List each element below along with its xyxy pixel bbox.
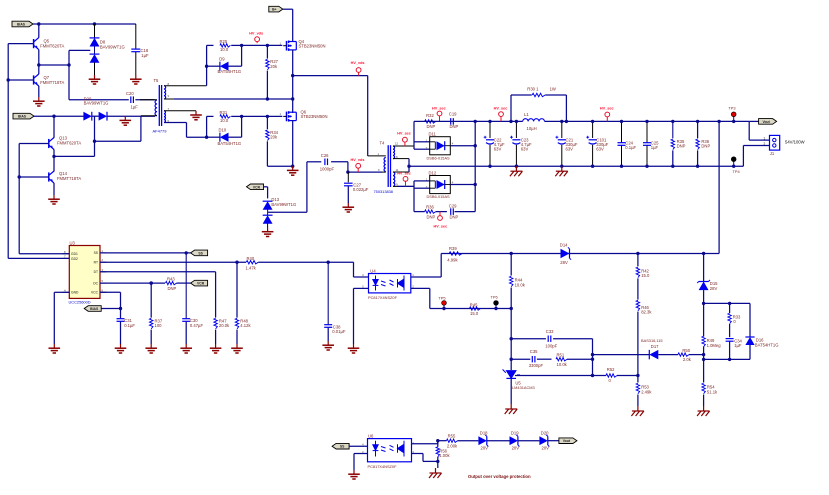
wire GD1 pin [19, 253, 69, 255]
svg-text:1W: 1W [550, 87, 556, 92]
junction GD1/Q14 base [18, 175, 21, 178]
wire feedback sense line [441, 253, 719, 255]
power flag HV_sec (rect top) [437, 111, 442, 121]
svg-text:28V: 28V [710, 286, 718, 291]
net tag SS (U3) [191, 250, 208, 256]
svg-text:R31: R31 [220, 110, 228, 115]
resistor R56 [437, 441, 439, 447]
ground (C31) [115, 344, 127, 353]
wire output return [409, 165, 743, 167]
ground (R48) [231, 344, 243, 353]
svg-text:BIAS: BIAS [17, 23, 26, 27]
wire rectifier cathode bus [474, 121, 476, 211]
capacitor C25 [646, 121, 648, 142]
svg-text:DNP: DNP [701, 144, 710, 149]
resistor R49 [703, 303, 705, 336]
net tag BIAS (mid-left) [13, 113, 34, 119]
wire switch node to T4 [293, 75, 368, 77]
wire Q5 collector [38, 24, 40, 38]
wire R40 to opto [258, 261, 353, 263]
svg-text:10µH: 10µH [527, 126, 537, 131]
svg-text:Output over voltage protection: Output over voltage protection [468, 474, 531, 479]
svg-text:PC817X4NSZ0F: PC817X4NSZ0F [368, 295, 398, 300]
wire D19-D20 [518, 440, 540, 442]
junction [150, 281, 153, 284]
wire Q7 to ground [38, 86, 40, 97]
transistor Q13 [53, 116, 55, 138]
wire Q4 source / Q6 drain [292, 50, 294, 113]
svg-text:HV_sec: HV_sec [600, 107, 614, 111]
svg-text:0.022µF: 0.022µF [353, 187, 369, 192]
svg-text:R30 1: R30 1 [527, 87, 539, 92]
wire midpoint to D8 branch [39, 64, 69, 66]
capacitor C21 [561, 121, 563, 138]
svg-text:82.3k: 82.3k [641, 310, 652, 315]
svg-text:UCC25600D: UCC25600D [69, 299, 91, 304]
capacitor C101 [592, 121, 594, 138]
transformer T5 secondary winding A [164, 86, 166, 99]
junction [510, 337, 513, 340]
junction [266, 115, 269, 118]
svg-text:OC: OC [93, 281, 99, 285]
svg-text:TP4: TP4 [733, 169, 741, 174]
svg-text:R45: R45 [470, 302, 478, 307]
zener D14 [561, 247, 572, 259]
junction [474, 183, 477, 186]
resistor R25 [207, 44, 214, 46]
ground (C38) [322, 341, 334, 350]
wire R31/D10 right [241, 116, 243, 137]
chassis ground (R53) [631, 406, 644, 416]
svg-text:D12: D12 [429, 171, 437, 176]
power flag HV_sec (T4 pin9) [403, 177, 408, 187]
chassis ground (U5) [505, 404, 518, 414]
svg-text:Vout: Vout [563, 439, 571, 443]
svg-text:10.0: 10.0 [220, 47, 229, 52]
ground (D8) [89, 75, 101, 84]
svg-text:D14: D14 [560, 242, 568, 247]
wire D20 to T5 pin 5 [107, 115, 155, 117]
inductor L1 [523, 119, 545, 122]
wire U4 pin1 [411, 276, 441, 278]
wire T4 pin 11 [393, 171, 409, 173]
wire T4 centre tap [408, 159, 410, 172]
capacitor C23 [515, 121, 517, 138]
ground (U4 pin3) [348, 344, 360, 353]
transformer T5 primary winding [155, 100, 157, 116]
capacitor C19 (DNP) [451, 118, 454, 125]
svg-text:D17: D17 [651, 344, 659, 349]
wire [186, 123, 188, 138]
wire GND pin [54, 291, 69, 293]
wire R34 bottom to source [267, 165, 292, 167]
junction [728, 302, 731, 305]
wire rectifier bracket D12 [413, 181, 415, 212]
resistor R45 [470, 307, 481, 310]
IC U3 pin stubs [63, 253, 70, 255]
svg-text:BAT54HT1G: BAT54HT1G [755, 342, 779, 347]
capacitor C26 [307, 161, 321, 163]
svg-text:BAT54HT1G: BAT54HT1G [218, 141, 242, 146]
junction [591, 358, 594, 361]
svg-text:DNP: DNP [168, 286, 177, 291]
svg-text:RT: RT [94, 261, 98, 265]
ground (D13) [262, 228, 274, 237]
resistor R33 [729, 303, 731, 313]
capacitor C29 (DNP) [451, 208, 454, 215]
junction [205, 65, 208, 68]
svg-text:TP3: TP3 [728, 106, 735, 111]
transformer T4 secondary winding A [393, 146, 395, 159]
junction [205, 136, 208, 139]
junction [185, 251, 188, 254]
svg-text:R36: R36 [426, 205, 434, 210]
diode D9 [207, 65, 220, 67]
junction [52, 115, 55, 118]
svg-text:R51: R51 [557, 352, 565, 357]
junction [346, 170, 349, 173]
wire to D8 midpoint [69, 49, 90, 51]
wire D11 cathode [450, 145, 475, 147]
svg-text:2: 2 [764, 142, 766, 146]
junction [119, 307, 122, 310]
svg-text:R25: R25 [220, 39, 228, 44]
svg-text:DNP: DNP [450, 124, 459, 129]
svg-text:BAS316,115: BAS316,115 [641, 338, 663, 343]
svg-text:BAT54HT1G: BAT54HT1G [218, 69, 242, 74]
svg-text:1µF: 1µF [734, 343, 742, 348]
svg-text:D10: D10 [219, 128, 227, 133]
wire U5 cathode row [515, 375, 593, 377]
wire resonant cap node to T4 pin 6 [348, 171, 382, 173]
svg-text:HV_vds: HV_vds [351, 158, 365, 162]
test point TP5 [443, 305, 445, 308]
junction [37, 22, 40, 25]
svg-text:PC817X4NSZ0F: PC817X4NSZ0F [368, 464, 398, 469]
capacitor C24 [621, 121, 623, 142]
wire Q5 base [8, 43, 33, 45]
chassis ground (C21) [555, 166, 568, 176]
transformer T5 core [158, 85, 160, 126]
rectifier diode D11 [430, 137, 451, 155]
svg-text:20.0k: 20.0k [219, 323, 230, 328]
svg-text:D9: D9 [219, 57, 225, 62]
capacitor C22 [489, 121, 491, 138]
junction [474, 144, 477, 147]
svg-text:HV_sec: HV_sec [434, 225, 448, 229]
resistor R55 [438, 440, 447, 442]
junction [240, 115, 243, 118]
svg-text:DSB6-015AS: DSB6-015AS [427, 155, 451, 160]
svg-text:BAV99WT1G: BAV99WT1G [84, 101, 109, 106]
wire R39 to opto [440, 254, 442, 278]
junction [510, 252, 513, 255]
transistor Q7 [34, 74, 39, 86]
capacitor C34 [726, 339, 734, 342]
resistor R36 output (DNP) [697, 121, 699, 138]
wire T4 primary drop [367, 76, 369, 156]
optocoupler U4 [369, 274, 411, 293]
svg-text:4.99k: 4.99k [447, 258, 458, 263]
wire C26 to D13 mid [306, 162, 308, 212]
svg-text:2.00k: 2.00k [447, 443, 458, 448]
power flag HV_vds (Q4 gate) [255, 37, 260, 43]
wire T4 pin 6 stub [382, 171, 386, 173]
svg-text:U4: U4 [370, 268, 376, 273]
svg-text:20k: 20k [270, 135, 278, 140]
wire U4 pin4 [354, 276, 369, 278]
resistor R31 [207, 115, 214, 117]
wire J1 pin1 drop [748, 121, 750, 140]
resistor R53 [637, 376, 639, 383]
svg-text:TP6: TP6 [491, 295, 498, 300]
transformer T4 secondary winding B [393, 172, 395, 186]
svg-text:1.00k: 1.00k [439, 453, 450, 458]
svg-text:2.49k: 2.49k [641, 389, 652, 394]
svg-text:1: 1 [764, 136, 766, 140]
svg-text:D11: D11 [429, 132, 437, 137]
wire J1 pin2 [743, 145, 769, 147]
ground (Q14) [48, 195, 60, 204]
zener D19 [510, 435, 520, 447]
svg-text:63V: 63V [566, 146, 574, 151]
svg-text:100pF: 100pF [545, 344, 557, 349]
svg-text:1µF: 1µF [651, 145, 659, 150]
svg-text:R32: R32 [426, 113, 434, 118]
wire Q13 base [19, 143, 49, 145]
node Q5/Q7 midpoint [37, 63, 40, 66]
junction [327, 261, 330, 264]
wire Q14 base [19, 176, 49, 178]
wire T4 pin 8 [393, 158, 409, 160]
resistor R40 [246, 261, 258, 264]
resistor R46 [636, 300, 639, 311]
dual diode D13 [267, 187, 269, 199]
resistor R52 [606, 374, 617, 377]
net tag BIAS (U3 VCC) [84, 306, 101, 312]
junction [436, 439, 439, 442]
wire SS row [100, 252, 191, 254]
capacitor C31 [117, 319, 125, 322]
wire to OVP ground [437, 461, 439, 468]
transistor Q4 (MOSFET) [283, 41, 296, 51]
resistor R54 [703, 359, 705, 382]
wire U5 to ground [510, 379, 512, 404]
net tag VCR [247, 184, 264, 190]
wire BIAS tag to VCC [101, 308, 120, 310]
resistor R48 [236, 262, 238, 317]
svg-text:D18: D18 [480, 430, 488, 435]
junction [291, 165, 294, 168]
wire T4 pin 12 [393, 145, 414, 147]
wire D18-D19 [487, 440, 510, 442]
resistor R44 [510, 254, 512, 276]
net tag Vout (output) [749, 120, 758, 122]
wire D8-mid branch vertical [68, 50, 70, 99]
net tag SS (OVP) [332, 443, 349, 449]
junction [474, 120, 477, 123]
dual diode D20 [83, 112, 91, 121]
diode D16 [749, 303, 751, 337]
wire GD2 pin [8, 257, 69, 259]
junction [150, 281, 153, 284]
wire GD1 net vertical [18, 144, 20, 254]
svg-text:R50: R50 [682, 348, 690, 353]
svg-text:20k: 20k [270, 64, 278, 69]
ground (primary return) [120, 116, 132, 125]
svg-text:VCC: VCC [91, 291, 99, 295]
ground (C27) [343, 203, 355, 212]
wire GD2 net vertical [7, 44, 9, 259]
svg-text:DNP: DNP [427, 215, 436, 220]
power flag HV_sec (rect bottom) [438, 212, 443, 221]
wire Q13 emitter / Q14 [53, 150, 55, 172]
transistor Q5 [34, 38, 39, 50]
svg-text:4.12k: 4.12k [240, 323, 251, 328]
ground (U6 pin3) [348, 470, 360, 479]
svg-text:15.0: 15.0 [470, 311, 479, 316]
svg-text:1µF: 1µF [131, 105, 139, 110]
svg-text:0.01µF: 0.01µF [332, 329, 346, 334]
wire output rail [414, 120, 523, 122]
svg-text:20V: 20V [542, 446, 550, 451]
svg-text:DT: DT [94, 270, 98, 274]
test point TP4 [733, 161, 735, 166]
svg-text:U6: U6 [368, 434, 374, 439]
svg-text:VCR: VCR [197, 282, 205, 286]
optocoupler U6 [368, 439, 412, 462]
svg-text:C20: C20 [126, 91, 134, 96]
wire snubber cluster top [704, 302, 750, 304]
svg-text:TP5: TP5 [438, 296, 445, 301]
wire OC row [100, 282, 165, 284]
svg-text:63V: 63V [494, 146, 502, 151]
svg-text:Vout: Vout [762, 120, 770, 124]
wire D20 mid-tap branch [94, 116, 96, 156]
wire R25/D9 right [241, 45, 243, 66]
wire BIAS top rail [33, 23, 136, 25]
wire T5 pin 5 stub [141, 115, 157, 117]
svg-text:15.0: 15.0 [641, 273, 650, 278]
capacitor C18 [135, 24, 137, 49]
svg-text:C29: C29 [449, 204, 457, 209]
svg-text:63V: 63V [521, 146, 529, 151]
shunt regulator U5 LM431ACM3 [503, 369, 520, 378]
svg-text:STB23NM50N: STB23NM50N [299, 44, 326, 49]
svg-text:C26: C26 [321, 153, 329, 158]
wire [703, 355, 705, 360]
capacitor C38 [327, 262, 329, 324]
svg-text:T5: T5 [154, 78, 160, 83]
svg-text:0.1µF: 0.1µF [625, 145, 636, 150]
resistor R50 [678, 353, 689, 356]
svg-text:DNP: DNP [450, 215, 459, 220]
svg-text:U3: U3 [70, 240, 76, 245]
zener D18 [478, 435, 488, 447]
junction [728, 358, 731, 361]
svg-text:VCR: VCR [253, 185, 261, 189]
resistor R47 [215, 272, 217, 318]
wire rectifier bracket D11 [413, 121, 415, 149]
junction emitters [52, 155, 55, 158]
svg-text:12: 12 [395, 142, 399, 146]
svg-text:750313838: 750313838 [374, 189, 393, 194]
power flag HV_sec (T4 pin12) [403, 137, 408, 146]
IC U3 UCC25600D [69, 246, 100, 299]
svg-text:HV_sec: HV_sec [432, 106, 446, 110]
wire R31/D10 left [206, 116, 208, 137]
junction [266, 44, 269, 47]
svg-text:51.1k: 51.1k [707, 389, 718, 394]
svg-text:10.0k: 10.0k [515, 282, 526, 287]
vertical sense feed from rail [718, 121, 720, 253]
svg-text:STB23NM50N: STB23NM50N [301, 114, 328, 119]
ground (T5 pin 7) [190, 111, 202, 120]
wire D12 cathode [450, 184, 475, 186]
junction [591, 374, 594, 377]
wire U4 pin2 [411, 287, 430, 289]
wire B+ to Q4 drain [283, 8, 293, 10]
wire Q7 base [8, 79, 33, 81]
ground (C30) [180, 344, 192, 353]
svg-text:20V: 20V [481, 446, 489, 451]
svg-text:HV_sec: HV_sec [397, 171, 411, 175]
wire D17 row [593, 354, 650, 356]
power flag HV_sec (pre-filter) [499, 112, 504, 122]
resistor R35 (DNP) [672, 121, 674, 138]
wire VCR tag stub [264, 186, 268, 188]
wire Q4 drain [292, 9, 294, 41]
wire VCC pin [100, 291, 121, 293]
junction [636, 252, 639, 255]
svg-text:C19: C19 [449, 112, 457, 117]
svg-text:GD2: GD2 [71, 257, 78, 261]
svg-text:DNP: DNP [677, 144, 686, 149]
svg-text:FMMT620TA: FMMT620TA [57, 140, 81, 145]
svg-text:R55: R55 [448, 434, 456, 439]
svg-text:GND: GND [71, 291, 79, 295]
svg-text:BAV99WT1G: BAV99WT1G [100, 44, 125, 49]
svg-text:1.47k: 1.47k [246, 265, 257, 270]
ground (Q7) [33, 97, 45, 106]
wire Q14 to ground [53, 183, 55, 195]
svg-text:1000pF: 1000pF [320, 167, 335, 172]
ground (Q6 source) [287, 166, 299, 175]
ground (U3 GND) [49, 344, 61, 353]
junction [235, 261, 238, 264]
wire DT row [100, 271, 216, 273]
chassis ground (OVP) [429, 468, 442, 478]
svg-text:T4: T4 [380, 141, 386, 146]
svg-text:FMMT718TA: FMMT718TA [40, 80, 64, 85]
svg-text:10.0: 10.0 [220, 118, 229, 123]
wire T4 pin 9 [393, 185, 414, 187]
transformer T4 core [387, 145, 389, 187]
svg-text:0.1µF: 0.1µF [124, 323, 135, 328]
chassis ground (R54) [697, 406, 710, 416]
wire T5 pin 7 [164, 110, 196, 112]
junction [93, 22, 96, 25]
net tag VCR (U3) [191, 280, 208, 286]
wire T5 pin 8 [164, 85, 207, 87]
svg-text:100: 100 [155, 323, 163, 328]
wire U6 pin3 to ground [354, 453, 368, 455]
junction centre tap [407, 165, 410, 168]
svg-text:DSB6-015AS: DSB6-015AS [427, 194, 451, 199]
svg-text:R39: R39 [449, 246, 457, 251]
wire SS tag to U6 [349, 445, 367, 447]
svg-text:R43: R43 [167, 277, 175, 282]
